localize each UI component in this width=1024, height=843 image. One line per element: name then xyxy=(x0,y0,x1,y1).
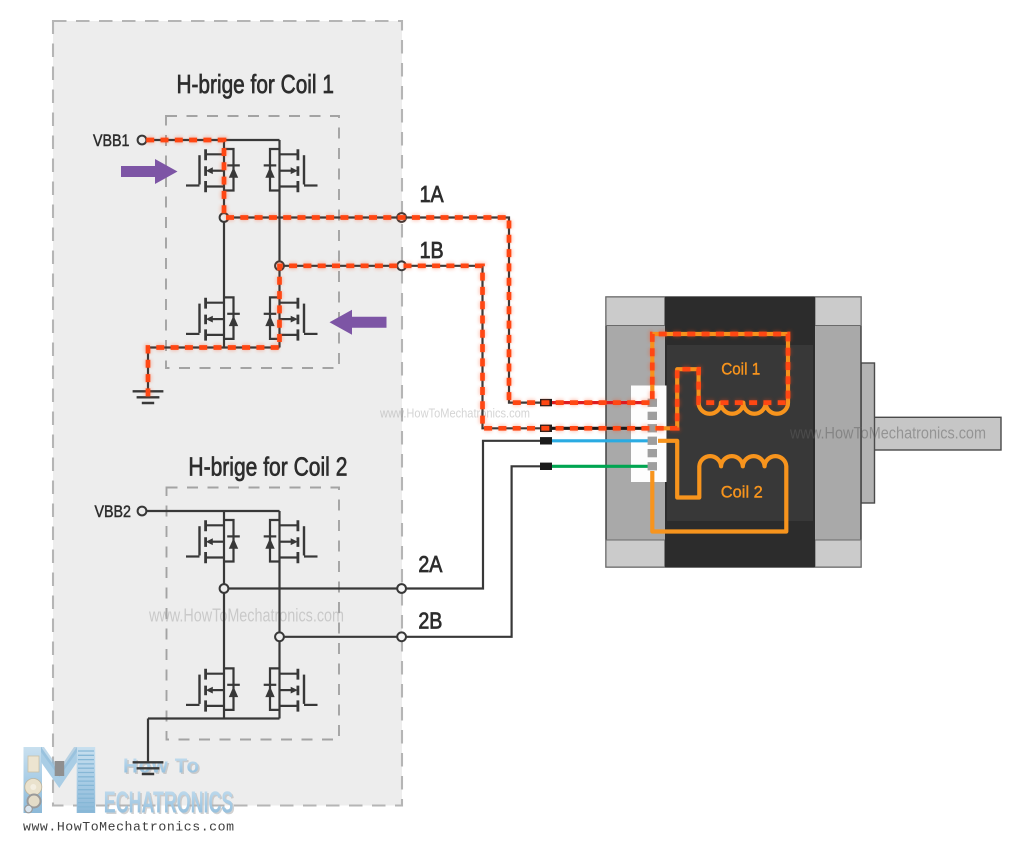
inner dashed box H-bridge 2 xyxy=(167,488,340,740)
VBB1 terminal circle xyxy=(138,136,147,145)
blue motor lead xyxy=(540,439,653,442)
right column wire xyxy=(278,140,280,348)
H-bridge 2 xyxy=(95,502,443,774)
left column wire xyxy=(223,511,225,719)
wire 2B from node B2 to motor xyxy=(280,466,547,637)
svg-text:2B: 2B xyxy=(418,608,442,634)
svg-text:VBB1: VBB1 xyxy=(93,131,130,150)
right column wire xyxy=(278,511,280,719)
node B1 xyxy=(275,261,284,270)
transistor Q4 low-side right xyxy=(264,297,318,340)
node A2 xyxy=(220,584,229,593)
svg-text:H-brige for Coil 1: H-brige for Coil 1 xyxy=(176,69,334,99)
inner dashed box H-bridge 1 xyxy=(166,116,339,368)
current path glow xyxy=(146,140,788,428)
left column wire xyxy=(223,140,225,348)
wire 2A from node A2 to motor xyxy=(224,441,546,589)
motor dark center panel xyxy=(665,297,815,567)
connector pin 2 xyxy=(648,412,657,420)
svg-text:Coil 1: Coil 1 xyxy=(721,360,760,379)
motor corner block bottom-left xyxy=(606,540,665,567)
terminal 1A xyxy=(397,213,406,222)
svg-text:ECHATRONICS: ECHATRONICS xyxy=(104,785,234,820)
svg-text:H-brige for Coil 2: H-brige for Coil 2 xyxy=(188,451,347,481)
ground symbol 2 xyxy=(133,762,164,774)
green motor lead xyxy=(540,465,653,468)
ground stem xyxy=(147,719,149,763)
connector pin 6 xyxy=(648,462,657,470)
svg-text:How To: How To xyxy=(123,755,199,778)
ground stem xyxy=(147,348,149,392)
motor wire connector housing xyxy=(631,386,667,483)
ground symbol 1 xyxy=(133,391,164,403)
motor front flange bracket xyxy=(861,363,875,503)
svg-text:www.HowToMechatronics.com: www.HowToMechatronics.com xyxy=(789,424,986,443)
connector square 2B xyxy=(540,463,552,470)
svg-text:Coil 2: Coil 2 xyxy=(721,482,763,501)
HowToMechatronics logo M xyxy=(24,747,96,813)
purple arrow into Q1 xyxy=(121,159,178,184)
connector pin 1 xyxy=(648,399,657,407)
current path red dashed overlay xyxy=(146,140,788,428)
svg-text:2A: 2A xyxy=(418,551,443,577)
purple arrow into Q4 xyxy=(330,310,387,335)
connector pin 3 xyxy=(648,424,657,432)
logo text How To xyxy=(104,755,235,821)
VBB1 supply rail xyxy=(146,139,279,141)
svg-text:www.HowToMechatronics.com: www.HowToMechatronics.com xyxy=(379,406,530,421)
terminal 2B xyxy=(397,632,406,641)
red motor lead xyxy=(540,401,653,404)
transistor Q3 low-side left xyxy=(186,297,240,340)
connector pin 4 xyxy=(648,437,657,445)
transistor Q5 high-side left xyxy=(186,520,240,563)
motor corner block bottom-right xyxy=(815,540,861,567)
coil 2 winding xyxy=(652,441,786,532)
motor corner block top-left xyxy=(606,297,665,326)
connector pin 5 xyxy=(648,449,657,457)
transistor Q1 high-side left xyxy=(186,149,240,192)
svg-text:1A: 1A xyxy=(420,181,445,207)
wire 1A from node A1 to motor xyxy=(224,218,546,403)
transistor Q2 high-side right xyxy=(264,149,318,192)
connector square 2A xyxy=(540,437,552,444)
transistor Q8 low-side right xyxy=(264,668,318,711)
outer dashed enclosure box xyxy=(53,21,402,806)
H-bridge 1 xyxy=(93,131,444,403)
svg-text:www.HowToMechatronics.com: www.HowToMechatronics.com xyxy=(148,606,344,626)
coil 1 winding xyxy=(652,334,788,428)
svg-text:1B: 1B xyxy=(420,237,444,263)
node A1 xyxy=(220,213,229,222)
svg-text:VBB2: VBB2 xyxy=(95,502,132,521)
transistor Q7 low-side left xyxy=(186,668,240,711)
motor corner block top-right xyxy=(815,297,861,326)
transistor Q6 high-side right xyxy=(264,520,318,563)
wire 1B from node B1 to motor xyxy=(280,266,547,429)
terminal 1B xyxy=(397,261,406,270)
node B2 xyxy=(275,632,284,641)
bottom source rail xyxy=(148,717,280,719)
motor body xyxy=(606,297,861,567)
bottom source rail xyxy=(148,346,280,348)
terminal 2A xyxy=(397,584,406,593)
black motor lead xyxy=(540,427,653,430)
VBB2 supply rail xyxy=(146,510,279,512)
stepper motor shaft xyxy=(874,417,1001,450)
motor inner panel xyxy=(667,345,813,521)
svg-text:www.HowToMechatronics.com: www.HowToMechatronics.com xyxy=(23,820,234,835)
connector square 1A xyxy=(540,399,552,406)
connector square 1B xyxy=(540,425,552,432)
VBB2 terminal circle xyxy=(138,507,147,516)
